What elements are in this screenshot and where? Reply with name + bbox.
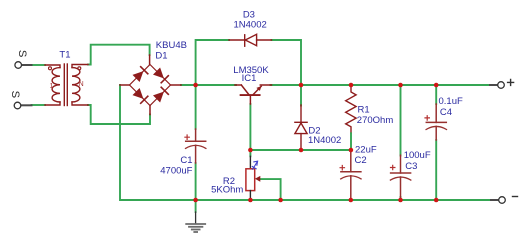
junction node: D3 right / D2 top xyxy=(299,83,304,88)
svg-text:IC1: IC1 xyxy=(242,73,257,84)
wire: C3 upper xyxy=(400,85,402,156)
R2 wiper arrow xyxy=(255,176,260,182)
junction node: C1 bottom / ground xyxy=(193,198,198,203)
svg-text:1: 1 xyxy=(50,83,54,90)
capacitor C1 xyxy=(186,129,206,163)
bridge diode top-right xyxy=(153,68,164,79)
output terminal + xyxy=(490,84,498,86)
junction node: bridge+ / C1 / D3 xyxy=(193,83,198,88)
svg-text:0.1uF: 0.1uF xyxy=(439,96,463,107)
junction node: C2 bottom xyxy=(349,198,354,203)
junction node: R2 bottom xyxy=(248,198,253,203)
resistor R1 xyxy=(346,86,356,133)
wire: bottom rail xyxy=(120,85,491,200)
wire: D3 loop left leg xyxy=(196,40,229,85)
wire: middle rail adj xyxy=(250,149,351,151)
junction node: adj / R2 top xyxy=(248,148,253,153)
IC1 arrow head xyxy=(256,86,261,91)
svg-text:5KOhm: 5KOhm xyxy=(211,184,243,195)
wire: C3 lower xyxy=(400,197,402,200)
wire: C1 upper xyxy=(195,85,197,129)
wire: C4 upper xyxy=(435,85,437,104)
svg-text:22uF: 22uF xyxy=(355,145,377,156)
wire: top rail from bridge to IC1 xyxy=(181,84,236,86)
svg-text:KBU4B: KBU4B xyxy=(156,40,187,51)
junction node: C4 top xyxy=(434,83,439,88)
ground xyxy=(186,212,205,232)
wire: top rail from IC1 to output xyxy=(271,84,491,86)
svg-text:D1: D1 xyxy=(155,51,167,62)
svg-text:C4: C4 xyxy=(440,107,452,118)
R2 variable mark (blue arrow) xyxy=(252,161,257,169)
svg-text:100uF: 100uF xyxy=(404,150,431,161)
capacitor C4 xyxy=(426,104,446,140)
wire: input S bottom terminal to primary xyxy=(32,104,46,106)
wire: D2 upper xyxy=(300,85,302,106)
diode D2 xyxy=(295,105,307,149)
capacitor C2 xyxy=(341,151,361,200)
svg-text:T1: T1 xyxy=(59,50,70,61)
bridge diode bottom-right xyxy=(153,92,164,103)
svg-text:4700uF: 4700uF xyxy=(160,165,192,176)
svg-text:1N4002: 1N4002 xyxy=(234,19,267,30)
transformer T1 xyxy=(45,64,88,106)
junction node: wiper bottom xyxy=(278,198,283,203)
svg-text:C2: C2 xyxy=(355,155,367,166)
svg-text:1N4002: 1N4002 xyxy=(308,135,341,146)
wire: transformer secondary top to bridge xyxy=(88,45,150,65)
junction node: C4 bottom xyxy=(434,198,439,203)
wire: transformer secondary bottom to bridge xyxy=(88,105,150,124)
wire: C1 lower xyxy=(195,163,197,200)
bridge rectifier D1 outline xyxy=(130,65,171,106)
svg-text:C3: C3 xyxy=(405,161,417,172)
bridge lead top xyxy=(149,55,151,65)
terminal S bottom xyxy=(21,104,32,106)
wire: input S top terminal to primary xyxy=(32,64,46,66)
wire: ground stub xyxy=(195,200,197,212)
diode D3 xyxy=(229,34,272,46)
bridge lead right xyxy=(171,84,182,86)
junction node: C3 top xyxy=(398,83,403,88)
bridge diode bottom-left xyxy=(133,88,144,99)
junction node: D2 bottom xyxy=(299,148,304,153)
svg-text:270Ohm: 270Ohm xyxy=(357,115,394,126)
wire: D3 loop right leg xyxy=(272,40,302,85)
potentiometer R2 xyxy=(249,150,251,156)
capacitor C3 xyxy=(390,155,410,197)
svg-text:S: S xyxy=(9,91,21,98)
svg-text:N: N xyxy=(79,81,84,88)
wire: R2 wiper to bottom rail xyxy=(260,179,281,200)
regulator IC1 LM350K xyxy=(235,85,272,104)
bridge diode top-left xyxy=(133,71,144,82)
terminal S top xyxy=(22,64,32,66)
junction node: R1 top xyxy=(349,83,354,88)
bridge lead left xyxy=(120,84,130,86)
junction node: R1 bottom / C2 top xyxy=(349,148,354,153)
svg-text:S: S xyxy=(16,50,28,57)
junction node: C3 bottom xyxy=(398,198,403,203)
svg-text:R1: R1 xyxy=(358,104,370,115)
bridge lead bottom xyxy=(149,106,151,115)
output terminal - xyxy=(491,199,499,201)
wire: C4 lower xyxy=(435,140,437,200)
wire: IC1 adj down xyxy=(249,104,251,150)
